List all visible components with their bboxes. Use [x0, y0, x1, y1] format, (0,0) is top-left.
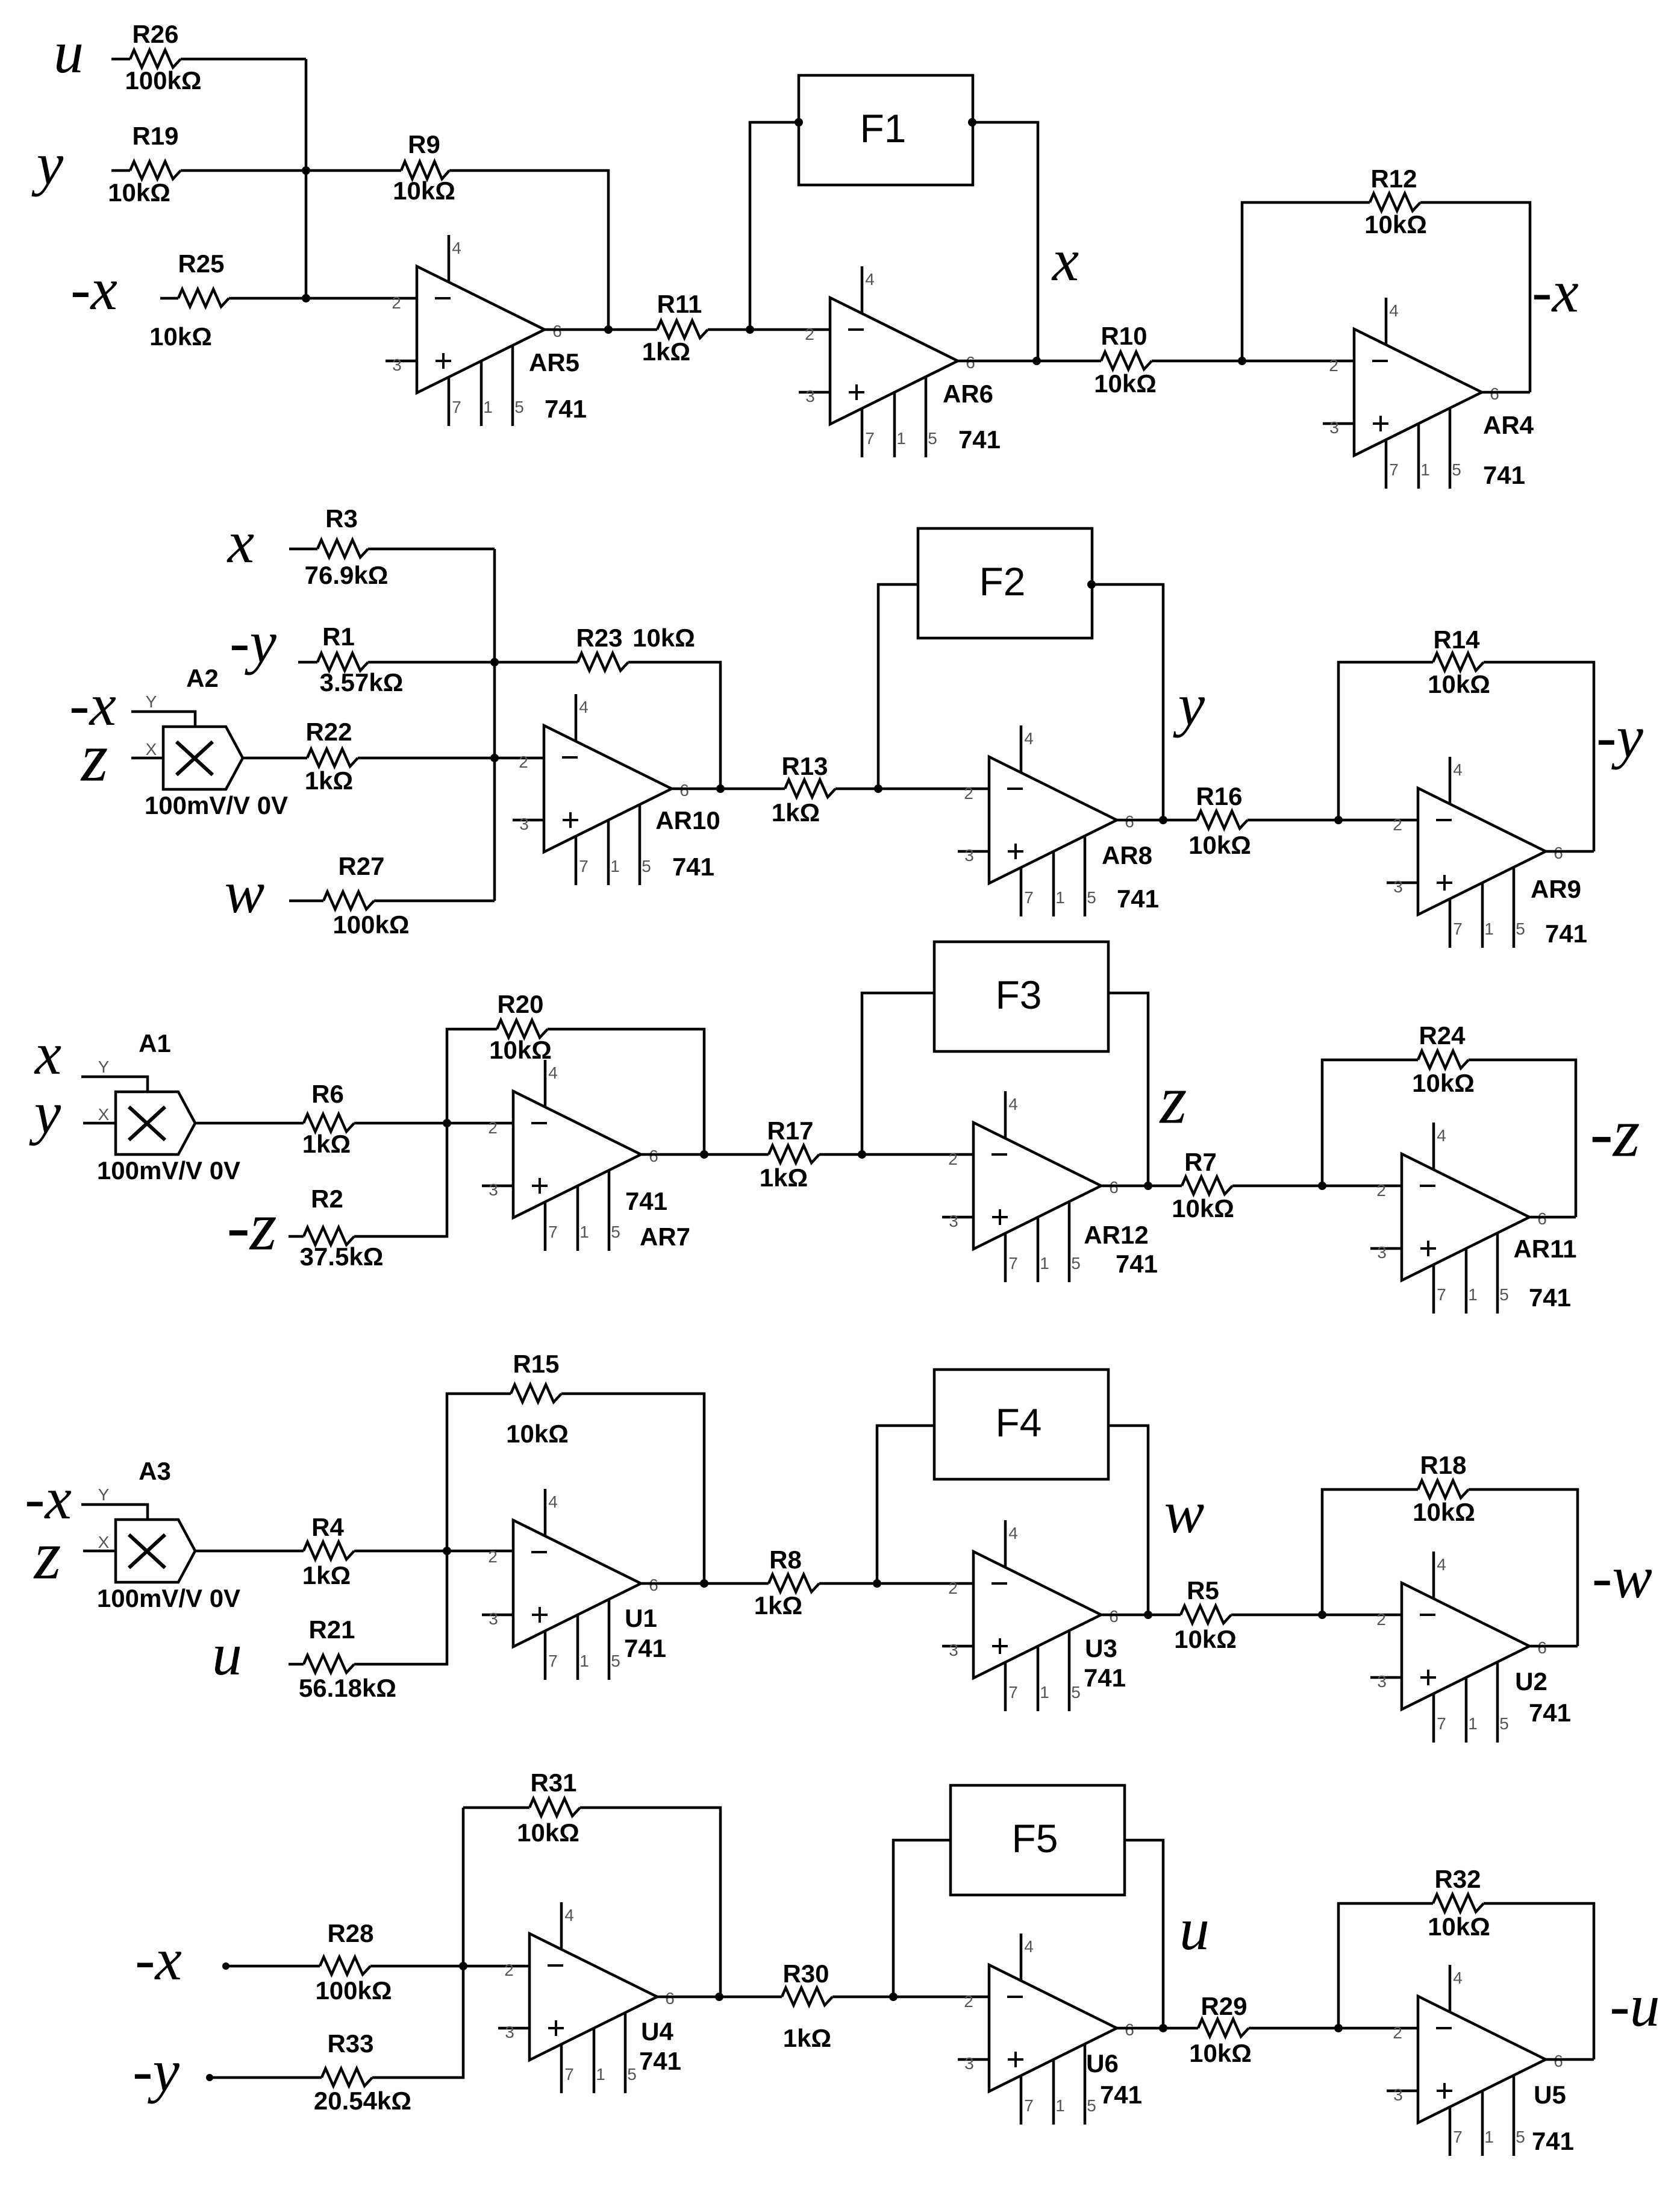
svg-text:100kΩ: 100kΩ	[333, 910, 409, 939]
wire U2 output	[1529, 1645, 1578, 1648]
op-amp AR7	[482, 1060, 690, 1251]
op-amp AR12	[942, 1091, 1158, 1282]
resistor R23	[576, 624, 695, 671]
svg-text:1kΩ: 1kΩ	[302, 1130, 351, 1158]
svg-text:2: 2	[519, 753, 528, 771]
node F4 tap junction	[873, 1579, 881, 1588]
wire R13 to AR8 inverting input	[835, 788, 989, 791]
svg-text:1kΩ: 1kΩ	[772, 798, 820, 827]
svg-text:3: 3	[392, 355, 402, 374]
svg-text:U6: U6	[1086, 2049, 1119, 2078]
multiplier A2	[131, 664, 288, 819]
svg-text:741: 741	[672, 853, 714, 881]
op-amp U3	[942, 1520, 1126, 1711]
svg-text:R7: R7	[1184, 1148, 1217, 1176]
svg-text:-z: -z	[226, 1188, 276, 1264]
resistor R17	[760, 1116, 819, 1192]
svg-text:10kΩ: 10kΩ	[1189, 2039, 1252, 2067]
svg-text:6: 6	[1537, 1209, 1547, 1228]
resistor R21	[299, 1615, 396, 1702]
A2 Y input wire	[131, 712, 195, 727]
resistor R3	[305, 504, 389, 589]
svg-text:X: X	[146, 740, 157, 759]
svg-text:R24: R24	[1419, 1021, 1466, 1050]
wire U3 output to R5	[1101, 1614, 1181, 1617]
wire R2 to bus	[354, 1123, 447, 1236]
svg-text:20.54kΩ: 20.54kΩ	[314, 2087, 411, 2115]
svg-text:R29: R29	[1201, 1992, 1247, 2020]
svg-text:R30: R30	[782, 1959, 829, 1988]
svg-text:741: 741	[1545, 919, 1587, 948]
wire R24 feedback loop	[1322, 1060, 1418, 1186]
svg-text:-w: -w	[1592, 1544, 1652, 1611]
svg-text:741: 741	[1117, 885, 1159, 913]
svg-text:56.18kΩ: 56.18kΩ	[299, 1674, 396, 1702]
svg-text:37.5kΩ: 37.5kΩ	[300, 1242, 384, 1271]
svg-text:AR5: AR5	[529, 348, 579, 377]
svg-text:6: 6	[1490, 384, 1499, 403]
svg-text:w: w	[1164, 1479, 1205, 1546]
wire F1 left tap	[750, 122, 799, 330]
wire R29 to U5 inverting input	[1249, 2027, 1418, 2030]
resistor R16	[1188, 782, 1251, 859]
wire R11 to AR6 inverting input	[708, 328, 830, 331]
svg-text:6: 6	[1537, 1638, 1547, 1657]
wire R9 to AR5 output	[449, 171, 608, 330]
node x	[1032, 357, 1041, 365]
svg-text:6: 6	[665, 1989, 675, 2008]
node bus/pin2 junction row5	[459, 1962, 467, 1970]
svg-text:4: 4	[1024, 1937, 1034, 1956]
wire R14 feedback loop	[1338, 662, 1433, 820]
svg-text:7: 7	[564, 2065, 574, 2084]
wire R4 to U1 inverting input	[354, 1550, 513, 1553]
svg-text:6: 6	[1125, 812, 1134, 831]
svg-text:-x: -x	[70, 255, 117, 322]
node bus/pin2 junction row2	[490, 754, 499, 762]
wire -y to R33	[210, 2076, 322, 2079]
svg-text:5: 5	[1499, 1714, 1509, 1733]
svg-text:4: 4	[579, 698, 589, 716]
svg-text:10kΩ: 10kΩ	[1428, 1912, 1490, 1941]
svg-text:R31: R31	[530, 1768, 576, 1797]
svg-text:10kΩ: 10kΩ	[517, 1818, 579, 1847]
svg-text:F3: F3	[995, 972, 1041, 1017]
op-amp U4	[498, 1902, 681, 2093]
wire AR7 output to R17	[641, 1153, 769, 1156]
wire -x lead	[160, 297, 178, 300]
svg-text:R10: R10	[1101, 322, 1147, 350]
svg-text:R23: R23	[576, 624, 622, 652]
node bus/pin2 junction row4	[443, 1547, 451, 1555]
svg-text:741: 741	[958, 425, 1001, 454]
svg-text:1kΩ: 1kΩ	[305, 766, 353, 795]
node F3 tap junction	[858, 1150, 866, 1159]
svg-text:6: 6	[1554, 2052, 1563, 2070]
svg-text:6: 6	[649, 1147, 658, 1165]
svg-text:10kΩ: 10kΩ	[1364, 210, 1427, 239]
svg-text:R16: R16	[1196, 782, 1242, 810]
svg-text:741: 741	[625, 1187, 667, 1215]
svg-text:R12: R12	[1370, 164, 1417, 193]
svg-text:1: 1	[1484, 2128, 1494, 2146]
resistor R8	[754, 1546, 819, 1620]
svg-text:F4: F4	[995, 1400, 1041, 1445]
wire R20 to AR7 output	[548, 1029, 704, 1154]
svg-text:R15: R15	[513, 1350, 559, 1378]
node y	[1159, 816, 1167, 824]
svg-text:10kΩ: 10kΩ	[1428, 670, 1490, 698]
resistor R12	[1364, 164, 1427, 239]
svg-text:U4: U4	[641, 2017, 673, 2046]
svg-text:5: 5	[611, 1223, 620, 1241]
wire F2 left tap	[878, 584, 918, 789]
svg-text:741: 741	[639, 2047, 681, 2075]
svg-text:2: 2	[948, 1150, 958, 1168]
wire F5 right to node u	[1125, 1840, 1163, 2028]
function block F2	[918, 528, 1092, 638]
svg-text:3: 3	[1329, 418, 1339, 437]
svg-text:3.57kΩ: 3.57kΩ	[320, 668, 404, 697]
svg-text:10kΩ: 10kΩ	[393, 177, 455, 205]
svg-text:100mV/V 0V: 100mV/V 0V	[97, 1156, 240, 1185]
svg-text:AR4: AR4	[1483, 411, 1534, 439]
svg-text:5: 5	[1087, 888, 1096, 907]
svg-text:1: 1	[1420, 460, 1430, 479]
svg-text:3: 3	[949, 1641, 958, 1659]
resistor R30	[782, 1959, 832, 2052]
svg-text:100kΩ: 100kΩ	[315, 1976, 392, 2005]
resistor R9	[393, 130, 455, 205]
svg-text:5: 5	[1071, 1683, 1081, 1702]
svg-text:2: 2	[1376, 1610, 1386, 1629]
svg-text:5: 5	[1499, 1285, 1509, 1304]
svg-text:z: z	[80, 719, 108, 795]
resistor R31	[517, 1768, 580, 1847]
svg-text:2: 2	[488, 1547, 498, 1566]
svg-text:1: 1	[896, 429, 906, 448]
svg-text:4: 4	[564, 1906, 574, 1924]
svg-text:-u: -u	[1610, 1972, 1660, 2039]
svg-text:7: 7	[548, 1223, 558, 1241]
wire R10 to AR4 inverting input	[1152, 360, 1354, 363]
svg-text:1: 1	[1484, 919, 1494, 938]
svg-text:u: u	[1179, 1896, 1210, 1962]
resistor R33	[314, 2029, 411, 2115]
svg-text:R6: R6	[311, 1080, 344, 1108]
resistor R15	[506, 1350, 569, 1448]
svg-text:3: 3	[1393, 877, 1403, 896]
svg-text:2: 2	[964, 784, 973, 803]
svg-text:4: 4	[865, 270, 875, 289]
resistor R25	[149, 249, 229, 351]
resistor R5	[1174, 1576, 1237, 1653]
svg-text:6: 6	[1125, 2020, 1134, 2039]
svg-text:741: 741	[624, 1634, 666, 1662]
svg-text:U5: U5	[1534, 2081, 1566, 2109]
wire AR6 output to R10	[958, 360, 1101, 363]
svg-text:5: 5	[514, 398, 524, 416]
wire AR10 output to R13	[672, 788, 785, 791]
svg-text:1kΩ: 1kΩ	[642, 337, 690, 366]
svg-text:3: 3	[805, 387, 815, 406]
svg-text:y: y	[1173, 671, 1205, 738]
svg-text:R2: R2	[311, 1185, 343, 1213]
svg-text:1: 1	[1040, 1683, 1049, 1702]
svg-text:10kΩ: 10kΩ	[1413, 1498, 1475, 1526]
svg-text:AR12: AR12	[1084, 1221, 1148, 1249]
svg-text:y: y	[31, 130, 64, 197]
svg-text:R8: R8	[769, 1546, 802, 1574]
node bus/pin2 junction row3	[443, 1119, 451, 1127]
op-amp U5	[1387, 1965, 1574, 2156]
svg-text:R22: R22	[305, 718, 352, 746]
svg-text:6: 6	[552, 322, 562, 340]
svg-text:w: w	[225, 859, 265, 925]
wire A1 output to R6	[195, 1122, 304, 1125]
resistor R18	[1413, 1451, 1475, 1526]
wire F4 right to node w	[1108, 1426, 1148, 1615]
wire bus to R23	[495, 661, 578, 664]
svg-text:1: 1	[1040, 1254, 1049, 1273]
node F1 tap junction	[746, 325, 754, 334]
node F1 left terminal	[795, 118, 803, 127]
wire bus to R9	[306, 169, 401, 172]
svg-text:7: 7	[1453, 2128, 1463, 2146]
svg-text:Y: Y	[98, 1485, 110, 1504]
svg-text:3: 3	[1377, 1672, 1387, 1691]
svg-text:7: 7	[1437, 1285, 1446, 1304]
wire w lead	[289, 900, 323, 903]
svg-text:X: X	[98, 1533, 110, 1552]
node -y input terminal	[206, 2074, 213, 2081]
resistor R7	[1172, 1148, 1234, 1223]
wire A3 output to R4	[195, 1550, 304, 1553]
wire R17 to AR12 inverting input	[819, 1153, 973, 1156]
wire -x to R28	[226, 1965, 320, 1968]
svg-text:AR9: AR9	[1531, 875, 1581, 903]
svg-text:R21: R21	[308, 1615, 355, 1644]
resistor R11	[642, 290, 708, 366]
wire R32 feedback loop	[1338, 1903, 1433, 2028]
svg-text:3: 3	[489, 1180, 498, 1199]
svg-text:4: 4	[1008, 1524, 1018, 1542]
svg-text:-x: -x	[1532, 258, 1579, 325]
resistor R20	[489, 990, 552, 1064]
svg-text:3: 3	[964, 846, 974, 865]
op-amp AR8	[958, 725, 1159, 916]
svg-text:A1: A1	[139, 1029, 171, 1057]
resistor R13	[772, 752, 835, 827]
wire R18 to U2 output	[1469, 1489, 1578, 1646]
svg-text:R17: R17	[767, 1116, 813, 1145]
wire -y lead	[298, 661, 317, 664]
node u	[1159, 2024, 1167, 2032]
svg-text:10kΩ: 10kΩ	[108, 178, 170, 207]
resistor R24	[1412, 1021, 1475, 1097]
svg-text:5: 5	[611, 1652, 620, 1670]
row 1: summer AR5 -> F1 -> AR6 (x) -> inverter AR4 (-x)	[31, 19, 1579, 489]
wire R18 feedback loop	[1322, 1489, 1418, 1615]
resistor R27	[323, 852, 410, 939]
wire U5 output	[1546, 2058, 1594, 2061]
svg-text:5: 5	[1071, 1254, 1081, 1273]
svg-text:-z: -z	[1590, 1094, 1640, 1171]
wire R12 to AR4 output	[1420, 202, 1530, 392]
node w	[1144, 1611, 1152, 1619]
op-amp U2	[1370, 1552, 1571, 1743]
svg-text:7: 7	[1024, 888, 1034, 907]
node z	[1144, 1182, 1152, 1190]
svg-text:741: 741	[545, 395, 587, 423]
svg-text:5: 5	[928, 429, 937, 448]
svg-text:3: 3	[964, 2054, 974, 2073]
A3 Y input wire	[81, 1505, 148, 1520]
svg-text:7: 7	[865, 429, 875, 448]
wire AR12 output to R7	[1101, 1185, 1182, 1188]
svg-text:10kΩ: 10kΩ	[489, 1036, 552, 1064]
node R12 feedback junction	[1238, 357, 1246, 365]
wire R22 to AR10 inverting input	[358, 757, 544, 760]
svg-text:AR11: AR11	[1513, 1235, 1576, 1263]
wire R1 to bus	[368, 661, 495, 664]
wire F2 right to node y	[1092, 584, 1163, 820]
svg-text:10kΩ: 10kΩ	[1412, 1069, 1475, 1097]
A1 Y input wire	[81, 1077, 148, 1092]
function block F3	[934, 942, 1108, 1051]
svg-text:4: 4	[452, 239, 461, 257]
wire R21 to bus	[354, 1551, 447, 1664]
svg-text:x: x	[1051, 227, 1079, 293]
node R32 feedback junction	[1334, 2024, 1343, 2032]
resistor R26	[125, 20, 201, 95]
svg-text:AR10: AR10	[655, 806, 720, 835]
svg-text:3: 3	[489, 1609, 498, 1628]
wire R25 to AR5 inverting input	[229, 297, 417, 300]
svg-text:4: 4	[1389, 301, 1399, 320]
bus vertical row1	[305, 59, 308, 298]
svg-text:3: 3	[1377, 1243, 1387, 1262]
svg-text:F2: F2	[979, 559, 1025, 604]
svg-text:2: 2	[964, 1992, 973, 2011]
svg-text:10kΩ: 10kΩ	[632, 624, 695, 652]
node AR7 output junction	[700, 1150, 708, 1159]
svg-text:u: u	[212, 1621, 242, 1688]
wire AR9 output	[1546, 850, 1594, 853]
svg-text:2: 2	[1393, 2023, 1402, 2042]
resistor R14	[1428, 625, 1490, 698]
multiplier A1	[81, 1029, 240, 1185]
svg-text:z: z	[1159, 1061, 1187, 1138]
svg-text:741: 741	[1116, 1250, 1158, 1278]
svg-text:741: 741	[1100, 2081, 1142, 2109]
svg-text:5: 5	[1516, 919, 1525, 938]
wire u lead	[289, 1663, 304, 1666]
svg-text:6: 6	[966, 353, 975, 372]
svg-text:7: 7	[1437, 1714, 1446, 1733]
wire R15 to U1 output	[561, 1394, 704, 1583]
resistor R22	[305, 718, 358, 795]
svg-text:741: 741	[1529, 1699, 1571, 1727]
wire y lead	[111, 169, 130, 172]
svg-text:1kΩ: 1kΩ	[783, 2024, 831, 2052]
svg-text:-x: -x	[135, 1926, 182, 1993]
wire F4 left tap	[877, 1426, 934, 1583]
svg-text:U3: U3	[1085, 1634, 1117, 1662]
node F5 tap junction	[889, 1993, 898, 2001]
svg-text:4: 4	[1437, 1126, 1446, 1145]
wire R30 to U6 inverting input	[832, 1996, 989, 1999]
svg-text:1kΩ: 1kΩ	[760, 1163, 808, 1192]
row 2: summer AR10 -> F2 -> AR8 (y) -> inverter AR9 (-y)	[69, 504, 1643, 948]
svg-text:7: 7	[452, 398, 461, 416]
svg-text:R32: R32	[1434, 1865, 1481, 1893]
resistor R32	[1428, 1865, 1490, 1941]
wire F3 left tap	[862, 993, 934, 1154]
wire R16 to AR9 inverting input	[1248, 819, 1418, 822]
svg-text:6: 6	[679, 781, 689, 800]
svg-text:76.9kΩ: 76.9kΩ	[305, 561, 389, 589]
op-amp AR9	[1387, 757, 1587, 948]
node F1 right terminal	[968, 118, 976, 127]
svg-text:R4: R4	[311, 1513, 344, 1541]
wire R19 to bus	[181, 169, 306, 172]
wire R32 to U5 output	[1484, 1903, 1594, 2059]
svg-text:R3: R3	[325, 504, 358, 533]
svg-text:AR8: AR8	[1102, 841, 1152, 869]
wire R8 to U3 inverting input	[819, 1582, 973, 1585]
resistor R4	[302, 1513, 354, 1589]
svg-text:R20: R20	[497, 990, 543, 1018]
wire R20 feedback loop left	[447, 1029, 497, 1123]
svg-text:10kΩ: 10kΩ	[149, 322, 212, 351]
resistor R10	[1094, 322, 1157, 398]
wire F1 right to node x	[972, 122, 1038, 361]
svg-text:4: 4	[548, 1492, 558, 1511]
svg-text:4: 4	[1453, 1968, 1463, 1987]
svg-text:2: 2	[504, 1961, 514, 1979]
svg-text:10kΩ: 10kΩ	[1188, 831, 1251, 859]
wire R27 to bus	[374, 900, 495, 903]
wire R7 to AR11 inverting input	[1232, 1185, 1402, 1188]
svg-text:5: 5	[1087, 2096, 1096, 2115]
function block F5	[951, 1785, 1125, 1895]
wire R31 line left	[463, 1806, 529, 1809]
svg-text:1: 1	[1055, 888, 1065, 907]
wire R15 feedback loop left	[447, 1394, 511, 1551]
svg-text:741: 741	[1529, 1283, 1571, 1312]
multiplier A3	[81, 1457, 240, 1612]
wire x lead	[289, 548, 317, 551]
svg-text:Y: Y	[98, 1057, 110, 1076]
svg-text:R26: R26	[132, 20, 178, 48]
node R14 feedback junction	[1334, 816, 1343, 824]
svg-text:R33: R33	[327, 2029, 373, 2058]
svg-text:R13: R13	[781, 752, 828, 780]
node -x input terminal	[222, 1962, 230, 1970]
node F2 tap junction	[874, 785, 882, 793]
wire u lead	[111, 58, 130, 61]
svg-text:Y: Y	[146, 692, 157, 711]
svg-text:F1: F1	[860, 106, 906, 151]
svg-text:6: 6	[1554, 844, 1563, 862]
svg-text:A3: A3	[139, 1457, 171, 1485]
row 3: multiplier A1 summer AR7 -> F3 -> AR12 (z) -> inverter AR11 (-z)	[29, 942, 1640, 1314]
function block F4	[934, 1370, 1108, 1479]
wire R23 to AR10 output	[628, 662, 720, 789]
svg-text:1: 1	[483, 398, 493, 416]
wire F5 left tap	[893, 1840, 951, 1997]
